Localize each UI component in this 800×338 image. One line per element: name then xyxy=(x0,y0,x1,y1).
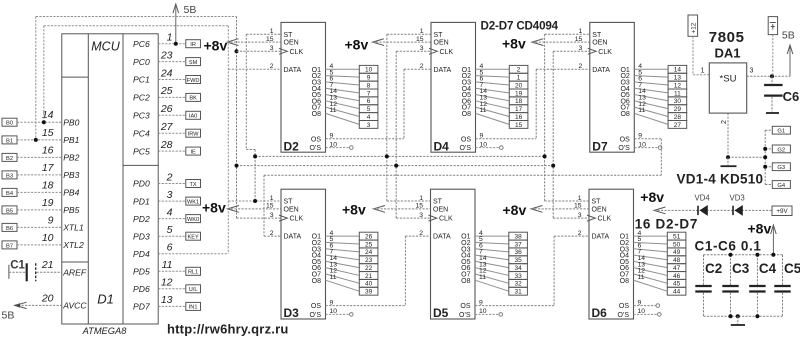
svg-text:FWD: FWD xyxy=(187,78,200,84)
wire D2 ST xyxy=(246,34,281,201)
wire B0 to PB0 xyxy=(17,121,62,123)
svg-text:5В: 5В xyxy=(2,310,15,322)
wire data rail top xyxy=(44,26,229,123)
junction D2 CLK xyxy=(235,49,239,53)
svg-text:D6: D6 xyxy=(592,306,608,320)
svg-text:OS: OS xyxy=(619,303,629,310)
connector IR xyxy=(186,40,201,48)
svg-text:1: 1 xyxy=(517,75,521,82)
connector WK1 xyxy=(186,197,201,205)
wire D7 O2 to pin box xyxy=(634,76,668,78)
connector B0 xyxy=(2,118,17,126)
svg-text:16: 16 xyxy=(42,144,54,156)
wire B1 to PB1 xyxy=(17,139,62,141)
svg-text:21: 21 xyxy=(41,259,54,271)
terminal box 26 xyxy=(359,232,378,240)
svg-text:PC0: PC0 xyxy=(133,57,150,67)
junction G2 xyxy=(763,147,767,151)
wire D7 O4 to pin box xyxy=(634,88,668,93)
terminal box 9 xyxy=(359,73,378,81)
wire D4 O5 to pin box xyxy=(476,95,510,101)
terminal box 34 xyxy=(509,264,528,272)
svg-text:ST: ST xyxy=(592,199,602,206)
wire B2 to PB2 xyxy=(17,156,62,158)
wire D2 O8 to pin box xyxy=(326,113,360,124)
pin PC3 label xyxy=(133,103,173,120)
wire G bus xyxy=(764,130,766,184)
wire D6 O3 to pin box xyxy=(634,249,668,252)
wire D6 O5 to pin box xyxy=(634,261,668,267)
svg-text:IRW: IRW xyxy=(188,132,199,138)
svg-text:+8v: +8v xyxy=(502,36,526,52)
terminal box 1 xyxy=(509,73,528,81)
connector +12 xyxy=(688,15,698,36)
connector WK0 xyxy=(186,215,201,223)
D2 input pin numbers xyxy=(266,28,274,70)
svg-text:46: 46 xyxy=(673,273,681,280)
pin PD2 label xyxy=(133,206,173,223)
junction G rail xyxy=(763,155,767,159)
svg-text:26: 26 xyxy=(160,103,173,115)
svg-text:19: 19 xyxy=(515,90,523,97)
wire D6 O8 to pin box xyxy=(634,280,668,291)
pin PB3 label xyxy=(42,162,80,180)
svg-text:+8v: +8v xyxy=(640,189,664,205)
connector SM xyxy=(186,58,201,66)
svg-text:1: 1 xyxy=(167,32,173,44)
svg-text:PC2: PC2 xyxy=(133,93,150,103)
wire D2 QS to D4 DATA xyxy=(326,69,432,139)
terminal box 37 xyxy=(509,240,528,248)
wire D7 QS to return rail xyxy=(634,139,661,175)
junction strobe D3 xyxy=(253,199,257,203)
svg-text:PD5: PD5 xyxy=(133,267,150,277)
pin PD5 label xyxy=(133,259,173,276)
wire D3 O3 to pin box xyxy=(326,249,360,252)
terminal box 3 xyxy=(359,120,378,128)
wire G1 lead xyxy=(765,129,772,131)
shift register D2 CD4094 xyxy=(279,22,326,153)
connector U/L xyxy=(186,285,201,293)
svg-text:OS: OS xyxy=(461,136,471,143)
junction PB0 data xyxy=(42,120,46,124)
pin PB2 label xyxy=(42,144,80,162)
svg-text:ST: ST xyxy=(592,32,602,39)
capacitor C1 xyxy=(9,260,62,282)
svg-text:O8: O8 xyxy=(312,278,321,285)
svg-text:11: 11 xyxy=(638,107,645,114)
terminal box 32 xyxy=(509,279,528,287)
svg-text:31: 31 xyxy=(514,289,522,296)
capacitor C4 xyxy=(749,255,776,316)
svg-text:WK1: WK1 xyxy=(187,199,199,205)
pin PD4 label xyxy=(133,242,173,259)
wire D4 O'S stub xyxy=(476,146,504,150)
wire B3 to PB3 xyxy=(17,174,62,176)
svg-text:19: 19 xyxy=(42,197,54,209)
svg-text:36: 36 xyxy=(514,249,522,256)
svg-text:14: 14 xyxy=(674,67,682,74)
pin XTL2 label xyxy=(42,232,84,250)
svg-text:4: 4 xyxy=(367,114,371,121)
diode VD3 xyxy=(730,194,745,216)
svg-text:+9V: +9V xyxy=(776,208,788,215)
svg-text:17: 17 xyxy=(515,106,523,113)
connector FWD xyxy=(186,76,201,84)
svg-text:11: 11 xyxy=(479,274,486,281)
wire DA1 output 5V xyxy=(747,45,793,76)
pin AREF label xyxy=(41,259,87,277)
svg-text:OS: OS xyxy=(460,303,470,310)
svg-text:O8: O8 xyxy=(312,111,321,118)
junction cap rail xyxy=(755,253,759,257)
wire PD6 stub xyxy=(158,288,186,290)
svg-text:11: 11 xyxy=(330,274,337,281)
svg-text:O'S: O'S xyxy=(459,312,471,319)
svg-text:21: 21 xyxy=(365,273,373,280)
terminal box 2 xyxy=(509,65,528,73)
svg-text:ST: ST xyxy=(434,32,444,39)
svg-text:PC5: PC5 xyxy=(133,146,150,156)
wire D5 O6 to pin box xyxy=(475,268,509,276)
junction arrow rail xyxy=(771,253,775,257)
connector IN1 xyxy=(186,302,201,310)
svg-text:3: 3 xyxy=(367,122,371,129)
svg-text:PD6: PD6 xyxy=(133,284,150,294)
wire D5 O5 to pin box xyxy=(475,261,509,267)
svg-text:PD3: PD3 xyxy=(133,231,150,241)
svg-text:CLK: CLK xyxy=(439,216,453,223)
svg-text:AVCC: AVCC xyxy=(62,301,87,311)
svg-text:B2: B2 xyxy=(6,156,13,162)
terminal box 17 xyxy=(509,105,528,113)
pin PC5 label xyxy=(133,139,173,156)
svg-text:D2-D7 CD4094: D2-D7 CD4094 xyxy=(481,19,559,32)
svg-text:PB3: PB3 xyxy=(63,170,79,180)
svg-text:12: 12 xyxy=(161,277,173,289)
svg-text:B5: B5 xyxy=(6,208,13,214)
wire D6 QS stub xyxy=(634,304,660,308)
junction strobe rail D4 xyxy=(385,154,389,158)
wire D4/D5 strobe xyxy=(387,34,431,201)
svg-text:+8v: +8v xyxy=(345,37,369,53)
svg-text:DATA: DATA xyxy=(433,234,451,241)
wire PC1 stub xyxy=(158,79,186,81)
svg-text:OEN: OEN xyxy=(433,207,448,214)
connector +9V xyxy=(772,206,792,216)
terminal box 27 xyxy=(668,120,687,128)
wire D7 O7 to pin box xyxy=(634,107,668,116)
svg-text:CLK: CLK xyxy=(598,216,612,223)
wire D3 O4 to pin box xyxy=(326,255,360,260)
svg-text:23: 23 xyxy=(365,257,373,264)
wire D3 O6 to pin box xyxy=(326,268,360,276)
terminal box 13 xyxy=(668,73,687,81)
wire D3 O7 to pin box xyxy=(326,274,360,283)
connector G4 xyxy=(772,181,790,189)
terminal box 39 xyxy=(359,287,378,295)
svg-text:17: 17 xyxy=(42,162,55,174)
capacitor C2 xyxy=(695,255,722,316)
terminal box 30 xyxy=(668,97,687,105)
svg-text:35: 35 xyxy=(514,257,522,264)
wire D2 CLK stub xyxy=(237,50,282,52)
wire D2 O5 to pin box xyxy=(326,95,360,101)
junction PB1 clock xyxy=(34,138,38,142)
svg-text:VD1-4 KD510: VD1-4 KD510 xyxy=(677,171,764,186)
svg-text:DA1: DA1 xyxy=(715,45,741,60)
svg-text:5В: 5В xyxy=(184,4,197,16)
svg-text:PB5: PB5 xyxy=(63,205,79,215)
wire strobe rail xyxy=(255,155,544,157)
wire clock bus xyxy=(237,17,282,219)
svg-text:PC6: PC6 xyxy=(133,39,150,49)
svg-text:TX: TX xyxy=(190,182,197,188)
power 5V top xyxy=(173,4,196,44)
connector IA0 xyxy=(186,111,201,119)
junction PC6/5V xyxy=(174,42,178,46)
wire D2 O1 to pin box xyxy=(326,68,360,70)
wire D7/D6 strobe xyxy=(545,34,590,201)
pin PD3 label xyxy=(133,224,173,241)
connector TX xyxy=(186,180,201,188)
svg-text:26: 26 xyxy=(365,234,373,241)
junction clock rail D7 xyxy=(551,164,555,168)
terminal box 16 xyxy=(509,113,528,121)
wire D7 O'S stub xyxy=(634,146,662,150)
svg-text:25: 25 xyxy=(160,85,173,97)
terminal box 31 xyxy=(509,287,528,295)
connector B4 xyxy=(2,188,17,196)
wire D3 QS to D5 DATA xyxy=(326,236,431,306)
pin PD1 label xyxy=(133,189,173,206)
svg-text:PD2: PD2 xyxy=(133,214,150,224)
wire data feed / strobe riser xyxy=(158,26,281,254)
svg-text:CLK: CLK xyxy=(290,49,304,56)
ground C6 xyxy=(766,112,779,114)
wire AVCC to 5V xyxy=(15,304,62,306)
capacitor C6 xyxy=(764,76,799,111)
D5 input pin numbers xyxy=(415,195,423,237)
terminal box 44 xyxy=(667,287,686,295)
wire B4 to PB4 xyxy=(17,191,62,193)
svg-text:ST: ST xyxy=(284,199,294,206)
wire D6 O2 to pin box xyxy=(634,242,668,244)
svg-text:7805: 7805 xyxy=(709,29,745,46)
pin PC2 label xyxy=(133,85,173,102)
terminal box 45 xyxy=(667,279,686,287)
svg-text:11: 11 xyxy=(330,107,337,114)
wire D5 O4 to pin box xyxy=(475,255,509,260)
svg-text:6: 6 xyxy=(167,242,173,254)
terminal box 22 xyxy=(359,264,378,272)
terminal box 21 xyxy=(359,272,378,280)
wire PD3 stub xyxy=(158,235,186,237)
svg-text:OEN: OEN xyxy=(284,40,299,47)
svg-text:O8: O8 xyxy=(620,278,629,285)
svg-text:OEN: OEN xyxy=(284,207,299,214)
svg-text:C1: C1 xyxy=(10,260,25,272)
wire D4 O4 to pin box xyxy=(476,88,510,93)
svg-text:D3: D3 xyxy=(284,306,300,320)
wire PD0 stub xyxy=(158,183,186,185)
svg-text:27: 27 xyxy=(674,122,682,129)
wire D6 O4 to pin box xyxy=(634,255,668,260)
svg-text:38: 38 xyxy=(514,234,522,241)
wire DA1 pin2 xyxy=(728,113,765,157)
svg-text:PD1: PD1 xyxy=(133,196,150,206)
wire D3 O'S stub xyxy=(326,313,354,317)
wire D2 O3 to pin box xyxy=(326,82,360,85)
pin PD6 label xyxy=(133,277,173,294)
svg-text:VD3: VD3 xyxy=(730,194,745,203)
junction strobe rail left xyxy=(253,154,257,158)
junction strobe rail D7 xyxy=(543,154,547,158)
label +8v D3 OEN xyxy=(202,200,281,216)
svg-text:15: 15 xyxy=(42,127,54,139)
label +8v D4 OEN xyxy=(345,37,432,53)
svg-text:PB0: PB0 xyxy=(63,117,79,127)
svg-text:34: 34 xyxy=(514,265,522,272)
terminal box 47 xyxy=(667,264,686,272)
svg-text:9: 9 xyxy=(48,214,54,226)
label +8v D5 OEN xyxy=(342,202,431,218)
label +8v D6 OEN xyxy=(503,202,590,218)
svg-text:B0: B0 xyxy=(6,121,13,127)
svg-text:DATA: DATA xyxy=(592,67,610,74)
svg-text:8: 8 xyxy=(367,82,371,89)
wire D5 O8 to pin box xyxy=(475,280,509,291)
terminal box 33 xyxy=(509,272,528,280)
wire +12 to DA1 pin1 xyxy=(693,36,709,74)
terminal box 23 xyxy=(359,256,378,264)
wire PC3 stub xyxy=(158,114,186,116)
svg-text:+8v: +8v xyxy=(342,202,366,218)
svg-text:D7: D7 xyxy=(592,139,608,153)
svg-text:MCU: MCU xyxy=(91,40,120,54)
wire D7 O6 to pin box xyxy=(634,101,668,109)
svg-text:CLK: CLK xyxy=(440,49,454,56)
wire D3 O1 to pin box xyxy=(326,235,360,237)
terminal box 46 xyxy=(667,272,686,280)
connector IRW xyxy=(186,129,201,137)
wire D7 O8 to pin box xyxy=(634,113,668,124)
pin PB5 label xyxy=(42,197,80,215)
terminal box 14 xyxy=(668,65,687,73)
svg-text:DATA: DATA xyxy=(284,234,302,241)
D4 input pin numbers xyxy=(416,28,424,70)
svg-text:5В: 5В xyxy=(782,30,795,42)
svg-text:ST: ST xyxy=(433,199,443,206)
terminal box 8 xyxy=(359,81,378,89)
svg-text:2: 2 xyxy=(517,67,521,74)
svg-text:BK: BK xyxy=(189,96,197,102)
svg-text:XTL2: XTL2 xyxy=(62,240,84,250)
wire diode line with arrow xyxy=(654,207,772,214)
svg-text:WK0: WK0 xyxy=(187,217,199,223)
svg-text:G1: G1 xyxy=(777,129,785,135)
wire D5 QS to D6 DATA xyxy=(475,236,589,306)
svg-text:30: 30 xyxy=(674,98,682,105)
svg-text:18: 18 xyxy=(42,179,54,191)
svg-text:PC1: PC1 xyxy=(133,75,150,85)
svg-text:20: 20 xyxy=(41,292,54,304)
svg-text:33: 33 xyxy=(514,273,522,280)
svg-text:D2: D2 xyxy=(284,139,300,153)
wire D2 O2 to pin box xyxy=(326,76,360,78)
svg-text:11: 11 xyxy=(674,90,681,97)
svg-text:CLK: CLK xyxy=(598,49,612,56)
svg-text:OS: OS xyxy=(311,136,321,143)
D3 input pin numbers xyxy=(266,195,274,237)
terminal box 20 xyxy=(509,81,528,89)
svg-text:D1: D1 xyxy=(97,292,114,307)
svg-text:OEN: OEN xyxy=(434,40,449,47)
wire D3 O5 to pin box xyxy=(326,261,360,267)
svg-text:B3: B3 xyxy=(6,173,13,179)
svg-text:OS: OS xyxy=(311,303,321,310)
terminal box 19 xyxy=(509,89,528,97)
svg-text:51: 51 xyxy=(673,234,681,241)
connector G3 xyxy=(772,163,790,171)
terminal box 40 xyxy=(359,279,378,287)
connector G2 xyxy=(772,145,790,153)
svg-text:ATMEGA8: ATMEGA8 xyxy=(82,326,128,336)
svg-text:ST: ST xyxy=(284,32,294,39)
pin PC0 label xyxy=(133,49,173,66)
terminal box 36 xyxy=(509,248,528,256)
shift register D7 CD4094 xyxy=(588,22,635,153)
svg-text:49: 49 xyxy=(673,249,681,256)
wire PC0 stub xyxy=(158,61,186,63)
svg-text:PC3: PC3 xyxy=(133,111,150,121)
svg-text:IA0: IA0 xyxy=(189,114,197,120)
pin PD0 label xyxy=(133,171,173,188)
svg-text:RL1: RL1 xyxy=(188,270,198,276)
shift register D6 CD4094 xyxy=(587,189,634,320)
svg-text:PD7: PD7 xyxy=(133,302,151,312)
svg-text:+8v: +8v xyxy=(202,200,226,216)
ground caps xyxy=(731,316,745,325)
svg-text:OEN: OEN xyxy=(592,207,607,214)
svg-text:C6: C6 xyxy=(783,89,800,104)
pin PB1 label xyxy=(42,127,80,145)
svg-text:C1-C6 0.1: C1-C6 0.1 xyxy=(695,239,762,254)
wire D5 O'S stub xyxy=(475,313,503,317)
connector KEY xyxy=(186,232,201,240)
svg-text:C2: C2 xyxy=(705,261,722,276)
wire D7 O1 to pin box xyxy=(634,68,668,70)
svg-text:C3: C3 xyxy=(732,261,750,276)
wire D4 O7 to pin box xyxy=(476,107,510,116)
svg-text:+8v: +8v xyxy=(748,221,772,237)
wire D6 O'S stub xyxy=(634,313,662,317)
connector B3 xyxy=(2,171,17,179)
pin PB4 label xyxy=(42,179,80,197)
junction clock rail D4 xyxy=(394,164,398,168)
svg-text:PB4: PB4 xyxy=(63,188,79,198)
svg-text:39: 39 xyxy=(365,289,373,296)
svg-text:16: 16 xyxy=(515,114,523,121)
connector G1 xyxy=(772,126,790,134)
wire D7 O3 to pin box xyxy=(634,82,668,85)
wire data return rail xyxy=(264,175,661,236)
svg-text:9: 9 xyxy=(367,75,371,82)
wire D2 O7 to pin box xyxy=(326,107,360,116)
svg-text:PD4: PD4 xyxy=(133,249,150,259)
svg-text:3: 3 xyxy=(167,189,173,201)
wire D4 QS to D7 DATA xyxy=(476,69,590,139)
